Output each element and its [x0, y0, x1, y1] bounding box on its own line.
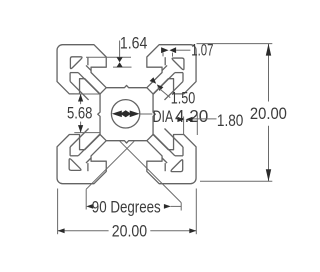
90 degrees arrows — [86, 204, 93, 209]
web face line2 TL — [70, 81, 89, 100]
web face line BR — [153, 134, 175, 156]
right 20.00 dimension line — [268, 44, 270, 102]
dimension 1.07 arrows — [161, 47, 169, 53]
web face line2 BL — [70, 129, 89, 148]
svg-text:90 Degrees: 90 Degrees — [92, 198, 161, 217]
web stub BL — [86, 158, 91, 163]
corner triangle hole bottom-right — [171, 160, 183, 172]
web face line BL — [78, 134, 100, 156]
web stub BR — [162, 158, 167, 163]
corner notch seg2 TR — [182, 73, 184, 82]
svg-text:5.68: 5.68 — [67, 104, 92, 123]
dimension 1.07 extension lines — [162, 53, 164, 57]
svg-text:1.64: 1.64 — [120, 34, 148, 52]
svg-text:1.07: 1.07 — [191, 42, 213, 61]
dimension DIA 4.20 arrows inside circle — [130, 111, 140, 118]
web stub TR — [162, 65, 167, 70]
bottom 20.00 extension lines — [57, 189, 59, 235]
web face line TR — [153, 73, 175, 95]
dimension 5.68 arrows — [78, 94, 83, 102]
dimension 5.68 dim line — [80, 94, 82, 104]
dimension 1.50 leader to text — [158, 87, 170, 97]
core chamfer top-left — [100, 88, 106, 94]
dimension 1.80 leader — [193, 118, 217, 120]
corner notch seg BR — [175, 155, 183, 157]
corner notch seg2 BR — [182, 147, 184, 156]
dimension 1.64 arrows — [117, 57, 123, 62]
web face line TL — [78, 73, 100, 95]
core chamfer bottom-right — [147, 135, 153, 141]
bottom 20.00 dimension line — [58, 230, 109, 232]
core chamfer bottom-left — [100, 135, 106, 141]
svg-text:4.20: 4.20 — [175, 106, 208, 127]
extrusion profile outline — [57, 45, 196, 184]
corner notch seg BL — [70, 155, 78, 157]
core chamfer top-right — [147, 88, 153, 94]
dimension 1.64 extension lines — [86, 56, 131, 58]
svg-text:1.80: 1.80 — [217, 112, 243, 131]
web stub TL — [86, 65, 91, 70]
dimension 5.68 extension lines — [74, 93, 100, 95]
dimension 1.80 arrows — [177, 117, 184, 122]
center bore — [111, 100, 139, 128]
bottom 20.00 arrows — [58, 228, 65, 233]
block edge seg bottom-right — [164, 163, 166, 171]
corner notch seg2 TL — [69, 73, 71, 82]
dimension 1.50 arrows across web — [150, 77, 157, 84]
corner notch seg2 BL — [69, 147, 71, 156]
corner notch seg TR — [175, 72, 183, 74]
web face line2 TR — [165, 81, 184, 100]
corner triangle hole top-left — [70, 57, 82, 69]
right 20.00 arrows — [266, 44, 271, 56]
dimension 1.80 extension lines — [183, 117, 185, 135]
corner triangle hole top-right — [172, 58, 184, 70]
corner notch seg TL — [70, 72, 78, 74]
right 20.00 extension lines — [197, 43, 273, 45]
block edge seg top-left — [87, 57, 89, 65]
svg-text:20.00: 20.00 — [112, 222, 148, 240]
dimension 1.07 leader — [176, 49, 190, 51]
dimension 1.64 leader — [119, 41, 121, 58]
block edge seg bottom-left — [87, 163, 89, 171]
svg-text:20.00: 20.00 — [250, 105, 287, 123]
corner triangle hole bottom-left — [69, 159, 81, 171]
dimension DIA 4.20 leader — [140, 113, 153, 115]
block edge seg top-right — [164, 57, 166, 65]
svg-text:DIA: DIA — [153, 108, 174, 126]
90 degrees leader lines — [86, 141, 134, 189]
web face line2 BR — [165, 129, 184, 148]
